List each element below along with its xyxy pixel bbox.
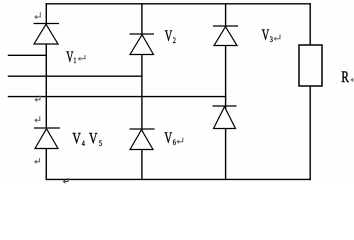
svg-text:V: V <box>262 26 270 44</box>
svg-text:5: 5 <box>99 138 102 148</box>
svg-text:6: 6 <box>173 137 176 147</box>
svg-text:1: 1 <box>73 55 76 65</box>
svg-text:V: V <box>72 131 80 148</box>
svg-text:R: R <box>341 70 349 87</box>
svg-text:4: 4 <box>82 138 85 148</box>
svg-text:3: 3 <box>270 34 273 44</box>
svg-text:V: V <box>164 129 172 147</box>
svg-text:V: V <box>165 27 173 45</box>
svg-text:V: V <box>89 131 97 148</box>
svg-text:2: 2 <box>173 35 176 45</box>
